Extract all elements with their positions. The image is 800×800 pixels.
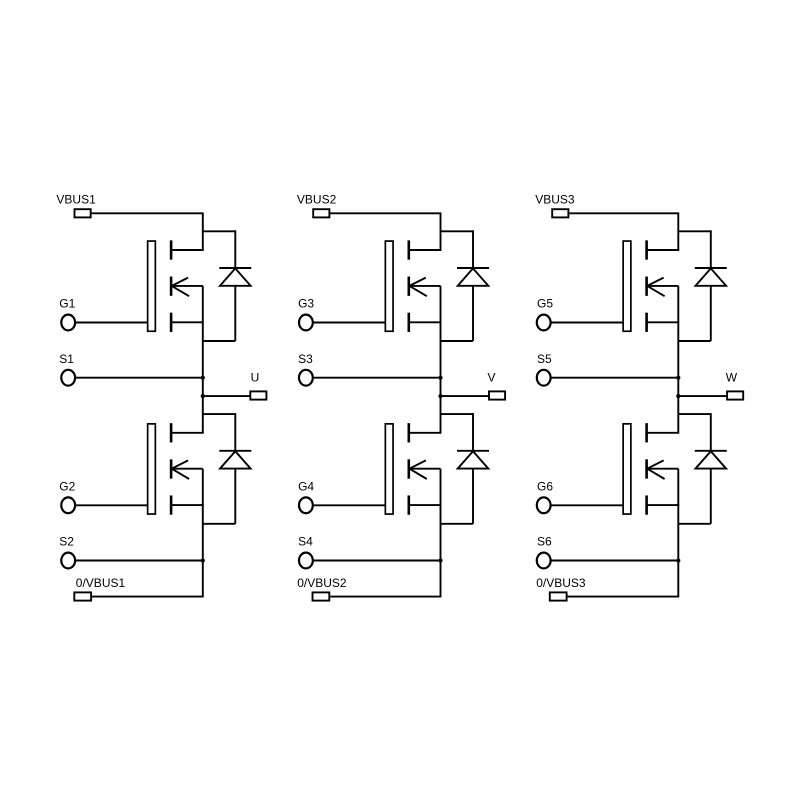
terminal S6 (537, 553, 551, 569)
wire G3 to gate (314, 322, 386, 324)
wire rail bottom segment (440, 469, 442, 598)
wire S5 to rail (552, 377, 679, 379)
svg-text:0/VBUS1: 0/VBUS1 (76, 576, 126, 590)
terminal G6 (537, 497, 551, 513)
wire S4 to rail (314, 560, 441, 562)
wire G5 to gate (552, 322, 624, 324)
transistor Q5 (high side) (623, 240, 679, 332)
wire G4 to gate (314, 504, 386, 506)
wire S3 to rail (314, 377, 441, 379)
junction S2/rail (201, 558, 205, 562)
junction S3/rail (438, 376, 442, 380)
diode D4 (441, 413, 490, 524)
terminal 0/VBUS2 (313, 592, 330, 600)
svg-text:G5: G5 (537, 297, 553, 311)
svg-text:G2: G2 (59, 479, 75, 493)
wire rail bottom segment (202, 469, 204, 598)
wire VBUS2 to rail (330, 212, 440, 214)
svg-text:VBUS1: VBUS1 (56, 192, 96, 206)
junction phase U/rail (201, 394, 205, 398)
junction S4/rail (438, 558, 442, 562)
transistor Q4 (low side) (385, 423, 441, 515)
svg-text:S2: S2 (59, 535, 74, 549)
svg-text:S5: S5 (537, 352, 552, 366)
wire rail middle segment (440, 286, 442, 433)
wire phase V (441, 395, 489, 397)
terminal G4 (299, 497, 313, 513)
transistor Q1 (high side) (148, 240, 204, 332)
terminal VBUS2 (313, 209, 329, 217)
wire 0/VBUS2 to rail (330, 596, 440, 598)
svg-text:VBUS2: VBUS2 (297, 192, 337, 206)
wire S2 to rail (76, 560, 203, 562)
svg-text:W: W (726, 370, 738, 384)
svg-text:S1: S1 (59, 352, 74, 366)
svg-text:U: U (251, 370, 260, 384)
svg-text:0/VBUS2: 0/VBUS2 (297, 576, 347, 590)
svg-text:S3: S3 (298, 352, 313, 366)
wire rail top segment (202, 212, 204, 250)
terminal phase W (727, 391, 743, 399)
junction S5/rail (676, 376, 680, 380)
terminal S4 (299, 553, 313, 569)
wire G2 to gate (76, 504, 148, 506)
terminal G2 (61, 497, 75, 513)
terminal S5 (537, 370, 551, 386)
terminal VBUS1 (75, 209, 91, 217)
wire S1 to rail (76, 377, 203, 379)
terminal S3 (299, 370, 313, 386)
transistor Q6 (low side) (623, 423, 679, 515)
svg-text:VBUS3: VBUS3 (535, 192, 575, 206)
svg-text:V: V (488, 370, 496, 384)
svg-text:0/VBUS3: 0/VBUS3 (536, 576, 586, 590)
wire VBUS3 to rail (569, 212, 678, 214)
wire rail top segment (440, 212, 442, 250)
diode D2 (203, 413, 252, 524)
svg-text:S4: S4 (298, 535, 313, 549)
diode D1 (203, 230, 252, 341)
wire rail top segment (677, 212, 679, 250)
terminal S1 (61, 370, 75, 386)
wire phase U (203, 395, 250, 397)
terminal G3 (299, 315, 313, 331)
wire 0/VBUS3 to rail (568, 596, 679, 598)
terminal 0/VBUS1 (74, 592, 91, 600)
terminal phase U (250, 391, 266, 399)
wire rail middle segment (677, 286, 679, 433)
junction phase V/rail (438, 394, 442, 398)
svg-text:G3: G3 (298, 297, 314, 311)
terminal VBUS3 (552, 209, 568, 217)
diode D5 (678, 230, 727, 341)
diode D3 (441, 230, 490, 341)
terminal phase V (489, 391, 505, 399)
svg-text:S6: S6 (537, 535, 552, 549)
diode D6 (678, 413, 727, 524)
wire rail middle segment (202, 286, 204, 433)
transistor Q2 (low side) (148, 423, 204, 515)
transistor Q3 (high side) (385, 240, 441, 332)
terminal S2 (61, 553, 75, 569)
terminal G1 (61, 315, 75, 331)
terminal G5 (537, 315, 551, 331)
wire phase W (678, 395, 726, 397)
wire G1 to gate (76, 322, 148, 324)
junction phase W/rail (676, 394, 680, 398)
svg-text:G6: G6 (537, 479, 553, 493)
svg-text:G1: G1 (59, 297, 75, 311)
wire S6 to rail (552, 560, 679, 562)
wire G6 to gate (552, 504, 624, 506)
wire VBUS1 to rail (92, 212, 203, 214)
wire rail bottom segment (677, 469, 679, 598)
junction S1/rail (201, 376, 205, 380)
svg-text:G4: G4 (298, 479, 314, 493)
junction S6/rail (676, 558, 680, 562)
wire 0/VBUS1 to rail (92, 596, 203, 598)
terminal 0/VBUS3 (550, 592, 567, 600)
